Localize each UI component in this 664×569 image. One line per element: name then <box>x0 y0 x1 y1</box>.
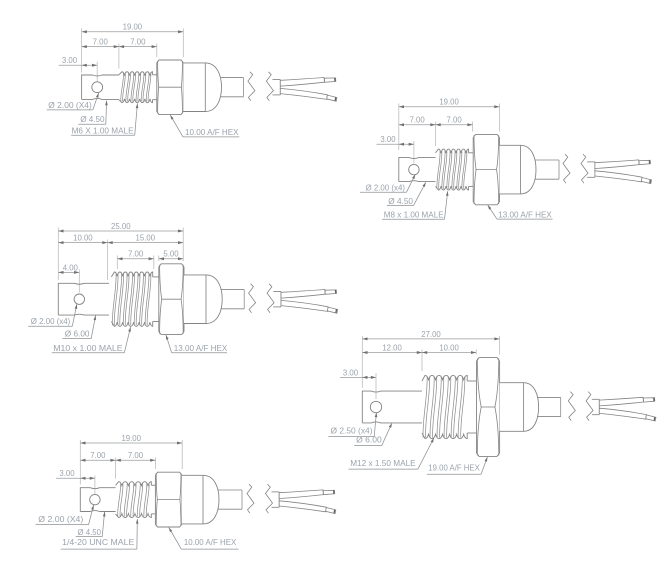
probe 2 cable <box>535 160 560 179</box>
probe 4 lower lead wire <box>599 408 656 421</box>
probe 2 lower lead wire <box>595 171 652 184</box>
probe 4 cross hole <box>370 401 381 412</box>
probe 3 thread relief neck <box>153 277 159 322</box>
probe 3 first break symbol <box>249 284 256 313</box>
svg-text:27.00: 27.00 <box>421 329 441 339</box>
probe 5 hole label <box>36 505 94 525</box>
svg-text:10.00 A/F HEX: 10.00 A/F HEX <box>184 537 237 547</box>
probe 4 thread relief neck <box>467 381 476 433</box>
svg-text:M6 X 1.00 MALE: M6 X 1.00 MALE <box>72 125 134 135</box>
probe 3 hex <box>159 264 184 335</box>
probe 4 dimension 3.00 hole offset <box>340 367 376 379</box>
svg-text:7.00: 7.00 <box>410 115 426 125</box>
probe 3 thread <box>111 272 152 326</box>
probe 2 upper lead wire <box>595 160 651 169</box>
svg-text:19.00: 19.00 <box>123 22 143 32</box>
probe 1 dimension 7.00 tip <box>82 37 119 49</box>
svg-text:7.00: 7.00 <box>447 115 463 125</box>
probe 2 (M8 x 1.00) extension lines <box>399 104 500 164</box>
probe 1 thread <box>119 72 153 103</box>
probe 4 dimension 27.00 overall <box>362 329 499 341</box>
probe 2 thread <box>436 149 469 190</box>
probe 3 tip diameter label <box>62 315 96 338</box>
probe 3 upper lead wire <box>281 290 337 299</box>
probe 1 tip body <box>82 75 119 99</box>
probe 5 housing body <box>182 475 219 524</box>
svg-text:4.00: 4.00 <box>63 262 79 272</box>
probe 3 hex label <box>166 335 228 353</box>
probe 3 tip body <box>58 283 109 315</box>
probe 2 thread relief neck <box>469 153 474 187</box>
probe 3 second break symbol <box>267 284 274 313</box>
probe 2 thread label <box>382 191 448 219</box>
probe 1 housing body <box>183 63 221 112</box>
probe 2 first break symbol <box>563 154 570 183</box>
probe 2 tip diameter label <box>387 182 426 206</box>
probe 4 dimension 10.00 thread <box>422 342 476 354</box>
svg-text:Ø 2.00 (X4): Ø 2.00 (X4) <box>38 514 83 524</box>
probe 1 dimension 7.00 thread <box>119 37 157 49</box>
svg-text:M12 x 1.50 MALE: M12 x 1.50 MALE <box>350 458 416 468</box>
probe 1 thread label <box>71 104 138 136</box>
probe 2 dimension 19.00 overall <box>399 97 500 109</box>
svg-text:25.00: 25.00 <box>111 221 131 231</box>
svg-text:M10 x 1.00 MALE: M10 x 1.00 MALE <box>53 343 123 353</box>
probe 2 housing body <box>500 145 537 194</box>
probe 3 dimension 5.00 hex <box>159 249 183 261</box>
probe 3 dimension 4.00 hole offset <box>58 262 79 274</box>
probe 1 dimension 3.00 hole offset <box>59 55 97 67</box>
svg-text:7.00: 7.00 <box>93 37 109 47</box>
probe 2 hex label <box>488 205 553 219</box>
probe 3 thread label <box>52 327 131 353</box>
probe 5 dimension 3.00 hole offset <box>56 468 95 480</box>
probe 3 hole label <box>28 304 77 326</box>
svg-text:7.00: 7.00 <box>130 37 146 47</box>
probe 4 first break symbol <box>568 392 575 421</box>
probe 1 hole label <box>47 93 99 110</box>
probe 1 thread relief neck <box>153 75 157 100</box>
probe 4 hole label <box>328 413 377 437</box>
probe 3 cable end jacket <box>273 292 281 307</box>
probe 1 first break symbol <box>248 72 255 101</box>
svg-text:10.00: 10.00 <box>439 342 459 352</box>
probe 5 cross hole <box>90 494 100 504</box>
probe 3 dimension 15.00 <box>108 233 184 245</box>
probe 3 lower lead wire <box>281 300 338 313</box>
probe 4 thread label <box>349 438 434 469</box>
probe 3 dimension 10.00 tip <box>58 233 107 245</box>
svg-text:Ø 4.50: Ø 4.50 <box>78 527 102 537</box>
probe 1 dimension 19.00 overall <box>82 22 184 34</box>
probe 3 (M10 x 1.00) extension lines <box>58 228 183 293</box>
svg-text:Ø 6.00: Ø 6.00 <box>65 329 90 339</box>
probe 4 second break symbol <box>586 392 593 421</box>
probe 2 hex <box>473 134 499 204</box>
probe 4 dimension 12.00 tip <box>362 342 422 354</box>
svg-text:3.00: 3.00 <box>343 367 359 377</box>
svg-text:19.00 A/F HEX: 19.00 A/F HEX <box>428 463 480 473</box>
svg-text:19.00: 19.00 <box>439 97 459 107</box>
probe 5 hex <box>155 472 181 527</box>
probe 5 upper lead wire <box>279 490 335 499</box>
svg-text:13.00 A/F HEX: 13.00 A/F HEX <box>498 209 552 219</box>
probe 3 cross hole <box>74 294 84 304</box>
probe 5 dimension 7.00 tip <box>80 450 115 462</box>
probe 4 (M12 x 1.50) extension lines <box>362 336 499 399</box>
svg-text:Ø 4.50: Ø 4.50 <box>388 196 413 206</box>
probe 4 housing body <box>500 383 539 432</box>
probe 2 cable end jacket <box>587 162 595 177</box>
probe 2 dimension 7.00 tip <box>399 115 436 127</box>
probe 4 hex <box>477 358 500 457</box>
svg-text:3.00: 3.00 <box>59 468 75 478</box>
svg-text:13.00 A/F HEX: 13.00 A/F HEX <box>174 343 228 353</box>
probe 1 lower lead wire <box>280 88 337 101</box>
svg-text:Ø 2.00 (X4): Ø 2.00 (X4) <box>48 100 92 110</box>
probe 5 thread relief neck <box>151 485 155 514</box>
svg-text:3.00: 3.00 <box>62 55 78 65</box>
svg-text:15.00: 15.00 <box>136 233 156 243</box>
probe 1 hex <box>157 60 184 114</box>
svg-text:1/4-20 UNC MALE: 1/4-20 UNC MALE <box>62 537 135 547</box>
probe 5 first break symbol <box>247 484 254 513</box>
probe 4 tip diameter label <box>354 423 392 445</box>
svg-text:M8 x 1.00 MALE: M8 x 1.00 MALE <box>384 209 444 219</box>
probe 5 (1/4-20 UNC) extension lines <box>80 440 182 494</box>
probe 2 dimension 3.00 hole offset <box>377 134 414 146</box>
svg-text:3.00: 3.00 <box>380 134 396 144</box>
probe 2 tip body <box>399 158 436 182</box>
probe 5 tip body <box>80 488 115 512</box>
probe 2 cross hole <box>409 164 419 174</box>
svg-text:Ø 6.00: Ø 6.00 <box>356 435 382 445</box>
probe 1 tip diameter label <box>78 101 107 125</box>
probe 1 cable <box>220 78 244 97</box>
probe 5 dimension 7.00 thread <box>116 450 156 462</box>
probe 3 cable <box>221 290 245 309</box>
svg-text:Ø 2.00 (x4): Ø 2.00 (x4) <box>366 182 406 192</box>
svg-text:12.00: 12.00 <box>382 342 402 352</box>
probe 4 cable <box>537 397 561 416</box>
probe 2 hole label <box>360 174 415 192</box>
probe 2 second break symbol <box>581 154 588 183</box>
probe 4 tip body <box>362 391 422 423</box>
svg-text:7.00: 7.00 <box>90 450 106 460</box>
svg-text:19.00: 19.00 <box>121 433 141 443</box>
probe 5 thread label <box>61 519 139 549</box>
svg-text:7.00: 7.00 <box>128 450 144 460</box>
probe 1 upper lead wire <box>280 78 336 87</box>
svg-text:Ø 2.00 (x4): Ø 2.00 (x4) <box>31 316 71 326</box>
probe 3 dimension 25.00 overall <box>58 221 183 233</box>
probe 4 thread <box>422 375 467 438</box>
svg-text:10.00 A/F HEX: 10.00 A/F HEX <box>185 127 239 137</box>
probe 2 dimension 7.00 thread <box>436 115 473 127</box>
probe 4 cable end jacket <box>592 399 600 414</box>
probe 5 lower lead wire <box>279 501 336 514</box>
probe 4 hex label <box>427 457 488 474</box>
svg-text:5.00: 5.00 <box>163 249 179 259</box>
svg-text:7.00: 7.00 <box>128 249 144 259</box>
probe 3 dimension 7.00 thread <box>117 249 154 261</box>
probe 5 tip diameter label <box>76 512 106 537</box>
probe 3 housing body <box>184 275 222 324</box>
probe 5 hex label <box>169 528 239 550</box>
probe 5 cable <box>218 490 243 509</box>
probe 5 second break symbol <box>266 484 273 513</box>
probe 4 upper lead wire <box>599 397 655 406</box>
probe 5 thread <box>116 482 152 518</box>
probe 1 hex label <box>170 115 239 137</box>
svg-text:10.00: 10.00 <box>73 233 93 243</box>
probe 1 (M6 x 1.00) extension lines <box>82 29 184 82</box>
probe 1 cable end jacket <box>273 80 281 95</box>
probe 1 cross hole <box>92 82 103 93</box>
probe 5 cable end jacket <box>272 492 280 507</box>
probe 1 second break symbol <box>266 72 273 101</box>
svg-text:Ø 4.50: Ø 4.50 <box>80 114 105 124</box>
probe 5 dimension 19.00 overall <box>80 433 182 445</box>
